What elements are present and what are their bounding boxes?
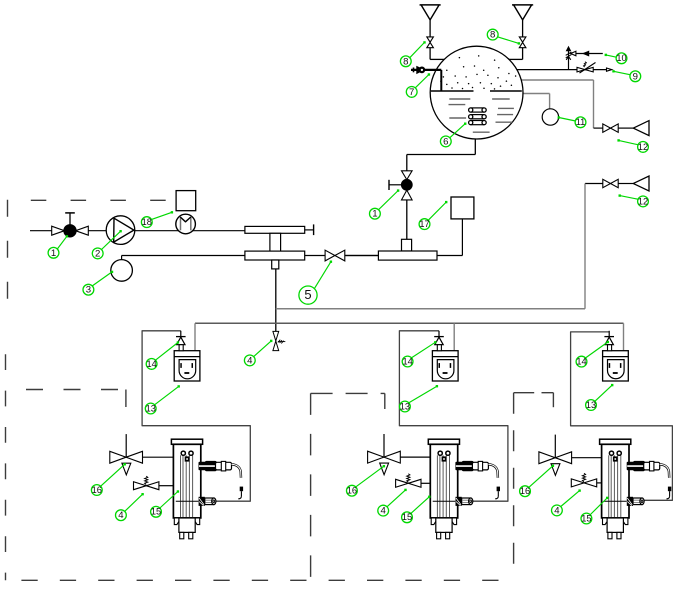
svg-text:14: 14: [576, 357, 586, 367]
svg-text:16: 16: [347, 486, 357, 496]
svg-text:13: 13: [146, 403, 156, 413]
svg-text:15: 15: [581, 513, 591, 523]
svg-text:18: 18: [142, 217, 152, 227]
svg-text:8: 8: [403, 56, 408, 67]
svg-text:16: 16: [520, 486, 530, 496]
svg-text:17: 17: [419, 219, 429, 229]
svg-text:8: 8: [490, 30, 495, 41]
svg-text:4: 4: [247, 355, 253, 366]
svg-text:9: 9: [633, 71, 638, 82]
svg-text:14: 14: [402, 356, 412, 366]
svg-text:15: 15: [151, 507, 161, 517]
svg-text:4: 4: [381, 506, 387, 517]
svg-text:4: 4: [118, 510, 124, 521]
svg-text:1: 1: [372, 209, 377, 220]
svg-text:4: 4: [554, 505, 560, 516]
svg-text:5: 5: [304, 287, 311, 302]
svg-text:3: 3: [86, 285, 91, 296]
svg-text:16: 16: [92, 485, 102, 495]
svg-text:6: 6: [443, 136, 448, 147]
svg-text:11: 11: [576, 117, 586, 127]
svg-text:14: 14: [146, 359, 156, 369]
svg-text:12: 12: [638, 142, 648, 152]
svg-text:7: 7: [409, 87, 414, 98]
svg-text:12: 12: [638, 196, 648, 206]
svg-text:10: 10: [616, 53, 626, 63]
svg-text:1: 1: [51, 248, 56, 259]
svg-text:13: 13: [586, 400, 596, 410]
svg-text:15: 15: [402, 512, 412, 522]
svg-text:13: 13: [400, 401, 410, 411]
svg-text:2: 2: [95, 248, 100, 259]
